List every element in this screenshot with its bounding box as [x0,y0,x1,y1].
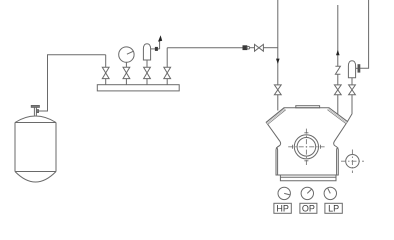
left shoulder hatch [266,108,286,125]
valve V8 [349,85,356,114]
svg-text:LP: LP [328,204,339,214]
right flange plate [337,148,339,175]
wire separator to top right [360,0,369,68]
compressor body [266,108,347,175]
discharge line [337,5,339,66]
sight glass outer circle [294,135,318,159]
oil separator cylinder [348,61,355,85]
shaft port centerlines [341,150,364,174]
manifold header [97,85,179,91]
wire tank to manifold valve V1 [39,55,106,111]
separator tee fitting [356,65,360,72]
gauge OP [301,187,313,199]
wire flex to valve V7 [337,74,339,85]
label LP [325,203,342,213]
compressor base [280,175,336,181]
valve V1 [102,55,109,85]
sight glass quadrant ticks [292,133,320,161]
shaft port circle [346,155,359,168]
valve V5 [255,44,264,51]
suction port diagonal [348,114,353,122]
sight glass centerlines [288,129,324,165]
suction line [277,0,279,85]
orifice fitting [243,46,250,50]
tank T1 [15,116,56,182]
flow arrow up [336,50,340,55]
right shoulder hatch [327,108,347,124]
svg-text:HP: HP [276,204,289,214]
valve V4 [164,48,171,85]
regulator outlet fitting [151,47,160,51]
valve V2 [123,67,130,85]
gauge LP [324,187,336,199]
sight glass inner circle [297,138,316,157]
flexible connection [335,66,340,74]
pressure gauge PI [119,47,134,67]
label OP [300,203,317,213]
valve V3 [144,67,151,85]
label HP [274,203,291,213]
valve V7 [334,85,341,116]
vent arrow [158,35,162,49]
flow arrow down [276,59,280,64]
svg-text:OP: OP [302,204,315,214]
valve V6 [274,85,281,111]
wire orifice to valve V5 [250,47,255,49]
wire manifold to orifice [167,47,243,49]
tank valve handwheel [31,105,39,115]
regulator cylinder [143,44,150,67]
left flange plate [276,148,278,175]
gauge HP [278,187,290,199]
compressor top plate [296,106,320,108]
wire valve V5 to suction line [263,47,277,49]
